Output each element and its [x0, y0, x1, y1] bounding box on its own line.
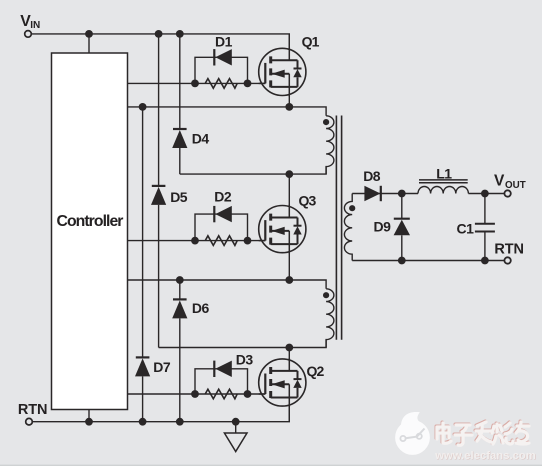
- inductor L1: [418, 187, 468, 194]
- diode D7: [142, 107, 144, 358]
- junction dot C1 bottom: [481, 257, 489, 265]
- junction dot rail-controller stub: [85, 30, 93, 38]
- svg-text:L1: L1: [436, 165, 452, 181]
- node secondary phase dot: [349, 205, 355, 211]
- wire controller top stub: [88, 34, 90, 53]
- diode D4: [179, 34, 181, 129]
- svg-text:D1: D1: [215, 34, 233, 50]
- node VOUT terminal: [504, 190, 510, 196]
- svg-text:OUT: OUT: [505, 180, 526, 191]
- wire Q3 drain stub: [288, 174, 290, 206]
- node D2 network left: [191, 237, 199, 245]
- ground: [235, 422, 237, 433]
- wire D3 loop: [195, 369, 248, 394]
- diode D1: [214, 49, 232, 65]
- diode D5: [158, 34, 160, 186]
- watermark logo blob: [395, 412, 430, 455]
- wire secondary bottom rail: [352, 260, 504, 262]
- node D3 network right: [244, 390, 252, 398]
- wire D1 loop: [195, 57, 248, 83]
- svg-text:IN: IN: [30, 20, 40, 31]
- node D1 network left: [191, 80, 199, 88]
- junction dot rail-controller stub: [85, 418, 93, 426]
- svg-text:RTN: RTN: [18, 402, 48, 418]
- wire gate drive Q3: [128, 240, 266, 242]
- junction dot Q3 source: [285, 276, 293, 284]
- svg-text:D6: D6: [192, 300, 210, 316]
- svg-text:Q2: Q2: [307, 363, 325, 379]
- diode D3: [214, 361, 232, 377]
- diode D6: [179, 280, 181, 299]
- node primary1 phase dot: [323, 119, 329, 125]
- node D3 network left: [191, 390, 199, 398]
- page bottom edge: [0, 465, 542, 466]
- junction dot rail-D4: [176, 30, 184, 38]
- transistor Q1: [259, 47, 306, 96]
- junction dot L1 right: [481, 190, 489, 198]
- diode D9: [401, 194, 403, 219]
- wire VIN top rail: [32, 34, 290, 49]
- wire primary1 bottom to Q3 drain: [180, 167, 326, 175]
- wire gate drive Q1: [128, 82, 266, 84]
- junction dot rail-D7: [139, 418, 147, 426]
- svg-text:Controller: Controller: [57, 213, 124, 230]
- wire Q3 source stub: [288, 252, 290, 280]
- junction dot rail-D5: [155, 30, 163, 38]
- svg-text:RTN: RTN: [494, 242, 524, 258]
- node primary2 phase dot: [323, 292, 329, 298]
- junction dot D6 top: [176, 276, 184, 284]
- wire gate drive Q2: [128, 393, 266, 395]
- svg-text:V: V: [494, 172, 505, 189]
- controller block: [52, 53, 128, 410]
- svg-text:C1: C1: [457, 221, 475, 237]
- wire secondary top to VOUT: [352, 193, 418, 195]
- svg-text:Q3: Q3: [299, 193, 317, 209]
- resistor R gate Q3: [205, 236, 237, 246]
- capacitor C1: [484, 194, 486, 224]
- node VIN terminal: [25, 31, 32, 38]
- wire Q1 source stub: [288, 95, 290, 107]
- wire Q2 source stub: [288, 406, 290, 422]
- wire controller bottom stub: [88, 410, 90, 422]
- transformer core: [336, 116, 341, 340]
- wire Q1 source line to primary1 top: [128, 107, 327, 116]
- wire RTN bottom rail: [33, 406, 290, 422]
- junction dot Q1 source: [285, 103, 293, 111]
- resistor R gate Q1: [205, 79, 237, 89]
- junction dot rail-D6: [176, 418, 184, 426]
- svg-text:D5: D5: [170, 189, 188, 205]
- watermark brand glyphs: [436, 421, 529, 445]
- node D1 network right: [244, 80, 252, 88]
- inductor primary winding 2: [326, 289, 334, 348]
- wire D2 loop: [195, 214, 248, 241]
- resistor R gate Q2: [205, 389, 237, 399]
- junction dot D7 top: [139, 103, 147, 111]
- svg-text:D7: D7: [153, 359, 171, 375]
- node RTN terminal left: [26, 418, 33, 425]
- node D2 network right: [244, 237, 252, 245]
- junction dot rail-ground: [232, 418, 240, 426]
- svg-text:D9: D9: [374, 218, 392, 234]
- svg-text:D2: D2: [214, 189, 232, 205]
- svg-text:D8: D8: [363, 168, 381, 184]
- transistor Q3: [259, 205, 306, 254]
- svg-text:Q1: Q1: [302, 33, 320, 49]
- diode D8: [364, 186, 380, 201]
- transistor Q2: [259, 358, 306, 407]
- svg-text:www.elecfans.com: www.elecfans.com: [434, 450, 536, 462]
- node RTN terminal right: [504, 257, 510, 263]
- svg-text:D3: D3: [236, 352, 254, 368]
- inductor primary winding 1: [326, 116, 334, 174]
- wire Q2 drain stub: [288, 348, 290, 360]
- wire Q1 drain stub: [288, 34, 290, 49]
- svg-text:D4: D4: [192, 131, 210, 147]
- junction dot D8 cathode: [398, 190, 406, 198]
- wire Q3 source line to primary2 top: [128, 280, 327, 289]
- junction dot Q3 drain: [285, 170, 293, 178]
- junction dot D9 anode: [398, 257, 406, 265]
- diode D2: [214, 206, 232, 222]
- junction dot Q2 drain: [285, 344, 293, 352]
- wire primary2 bottom to Q2 drain: [159, 340, 327, 348]
- inductor secondary winding: [344, 194, 352, 261]
